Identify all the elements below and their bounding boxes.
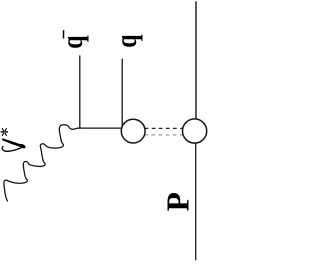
label gamma-star: gamma tail hook xyxy=(2,146,21,151)
quark q line xyxy=(121,59,123,126)
svg-text:q: q xyxy=(109,34,142,47)
svg-text:q: q xyxy=(56,35,89,48)
label gamma-star: gamma blob xyxy=(19,143,26,149)
pomeron exchange gray dashed line xyxy=(144,134,183,136)
dipole interaction blob (left circle) xyxy=(121,119,145,143)
label gamma-star: asterisk xyxy=(1,128,8,136)
quark-pair horizontal wire xyxy=(79,127,133,129)
proton line upper segment xyxy=(195,1,197,125)
pomeron exchange dark dashed line xyxy=(145,127,184,129)
antiquark qbar line xyxy=(79,55,81,128)
label q xyxy=(109,34,142,47)
svg-text:P: P xyxy=(161,192,196,211)
photon gamma* wavy line xyxy=(4,125,81,201)
label qbar: overline bar xyxy=(63,30,65,38)
proton line lower segment xyxy=(195,138,197,260)
proton vertex blob (right circle) xyxy=(183,119,207,143)
label gamma-star: gamma upper arm (hand drawn) xyxy=(2,138,21,147)
label qbar: q glyph xyxy=(56,35,89,48)
label P xyxy=(161,192,196,211)
